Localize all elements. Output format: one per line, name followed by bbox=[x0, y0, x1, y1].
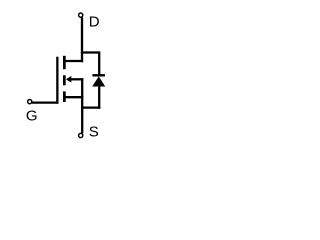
terminal D circle bbox=[79, 13, 83, 17]
body arrow shaft bbox=[71, 78, 84, 80]
source contact stub bbox=[63, 96, 83, 98]
channel middle dash bbox=[63, 75, 66, 85]
wire source vertical bbox=[81, 78, 83, 133]
body arrow head bbox=[66, 76, 71, 83]
wire source to diode bottom horizontal bbox=[81, 106, 100, 108]
wire drain to diode branch bbox=[81, 51, 100, 53]
wire gate bbox=[32, 101, 59, 103]
wire diode anode vertical bbox=[98, 86, 100, 109]
svg-text:G: G bbox=[26, 107, 38, 124]
wire drain vertical bbox=[81, 17, 83, 62]
diode cathode bar bbox=[92, 74, 105, 76]
svg-text:S: S bbox=[89, 123, 99, 140]
drain contact stub bbox=[63, 60, 83, 62]
channel top dash bbox=[63, 56, 66, 69]
terminal G circle bbox=[28, 100, 32, 104]
wire diode cathode vertical bbox=[98, 53, 100, 76]
svg-text:D: D bbox=[89, 13, 100, 30]
diode triangle bbox=[92, 76, 105, 86]
terminal S circle bbox=[79, 133, 83, 137]
gate bar bbox=[56, 57, 58, 104]
channel bottom dash bbox=[63, 91, 66, 102]
